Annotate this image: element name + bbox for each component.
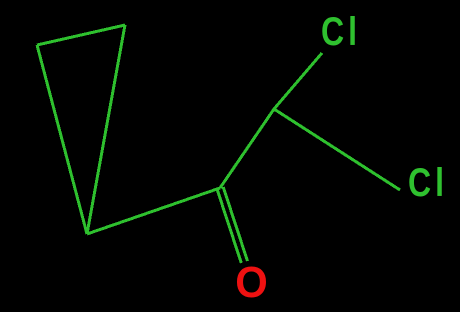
ring bond TL-B (cyclopropane left edge) [37, 45, 87, 234]
ring bond TL-TR (cyclopropane top edge) [37, 25, 125, 45]
svg-text:Cl: Cl [408, 160, 448, 205]
double bond C1=O line 2 [217, 189, 241, 263]
bond C1-C2 (carbonyl carbon to CHCl2 carbon) [220, 109, 274, 188]
ring bond TR-B (cyclopropane right edge) [87, 25, 125, 234]
svg-text:Cl: Cl [321, 9, 361, 54]
double bond C1=O line 1 [223, 187, 247, 261]
svg-text:O: O [235, 258, 268, 307]
bond B-C1 (ring to carbonyl carbon) [87, 188, 220, 234]
bond C2-Cl top [274, 53, 322, 109]
bond C2-Cl right [274, 109, 400, 190]
